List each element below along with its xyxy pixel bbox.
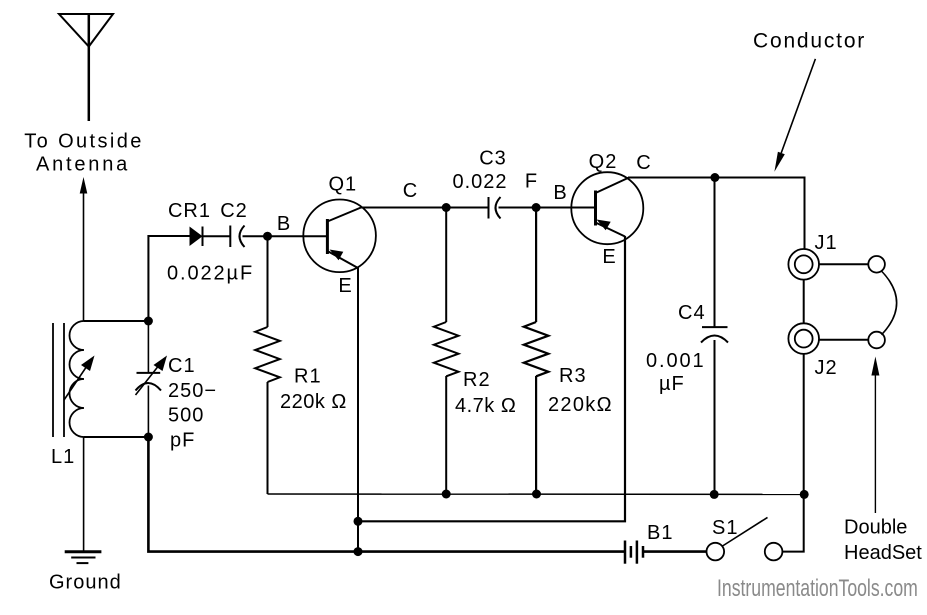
Q1 emitter arrow (330, 250, 344, 261)
node dot R3 bottom (532, 490, 541, 499)
jack J2 (788, 323, 819, 354)
capacitor C2 (230, 226, 267, 248)
svg-text:C4: C4 (678, 302, 706, 324)
svg-text:4.7k Ω: 4.7k Ω (455, 395, 516, 417)
node dot R2 bottom (442, 490, 451, 499)
svg-text:C: C (636, 152, 650, 174)
antenna symbol (59, 14, 113, 122)
node dot C4 bottom (710, 490, 719, 499)
svg-text:0.022µF: 0.022µF (167, 262, 254, 284)
switch S1 (707, 517, 783, 560)
svg-text:220k Ω: 220k Ω (280, 391, 347, 413)
headset cord arc (881, 271, 897, 335)
svg-text:B1: B1 (647, 522, 673, 544)
wire Q1 emitter vertical (357, 267, 359, 552)
svg-text:C2: C2 (220, 200, 248, 222)
svg-text:E: E (602, 246, 615, 268)
capacitor C4 (701, 178, 728, 495)
svg-text:InstrumentationTools.com: InstrumentationTools.com (717, 575, 918, 601)
svg-text:R2: R2 (463, 369, 491, 391)
wire Q2 emitter vertical (358, 236, 625, 521)
svg-text:Q1: Q1 (329, 174, 358, 196)
conductor pointer arrow (774, 59, 815, 172)
svg-text:pF: pF (170, 429, 195, 451)
svg-text:R3: R3 (559, 365, 587, 387)
Q2 emitter arrow (597, 220, 611, 231)
node dot emitter bus3 (354, 547, 363, 556)
resistor R1 (255, 236, 280, 494)
wire rail below J2 (782, 354, 803, 552)
svg-text:E: E (338, 275, 351, 297)
wire Q2 collector top (628, 178, 805, 250)
svg-text:R1: R1 (294, 365, 322, 387)
svg-text:250−: 250− (168, 380, 217, 402)
wire left top corner (148, 236, 189, 321)
node dot R3 top (532, 203, 541, 212)
svg-text:C: C (403, 180, 417, 202)
node dot B (Q1 base) (263, 232, 272, 241)
wire to Q2 base (536, 207, 595, 209)
svg-text:µF: µF (659, 373, 685, 395)
node dot C4 top (710, 173, 719, 182)
svg-text:C1: C1 (168, 355, 196, 377)
wire L1 top tap (84, 320, 148, 322)
svg-text:To Outside: To Outside (24, 131, 144, 153)
resistor R2 (434, 208, 459, 495)
ground (65, 552, 102, 563)
svg-text:B: B (553, 182, 566, 204)
battery B1 (625, 541, 643, 564)
svg-text:500: 500 (168, 405, 204, 427)
svg-text:S1: S1 (712, 517, 738, 539)
headset plug bottom (868, 332, 885, 349)
resistor R3 (524, 208, 549, 495)
transistor Q2 (571, 172, 643, 244)
capacitor C3 (489, 197, 537, 219)
svg-text:0.022: 0.022 (452, 171, 507, 193)
wire bus3 (ground return) (148, 437, 625, 552)
svg-text:J2: J2 (815, 357, 838, 379)
transistor Q1 (303, 200, 376, 273)
L1 variable arrow (64, 356, 95, 401)
svg-text:0.001: 0.001 (646, 350, 706, 372)
node dot R2 top (442, 203, 451, 212)
svg-text:Ground: Ground (49, 571, 122, 593)
node dot emitter bus2 (354, 517, 363, 526)
wire L1 bottom tap (84, 436, 148, 438)
wire J2 to plug (819, 339, 868, 341)
capacitor C1 (variable) branch vertical wire (136, 236, 162, 552)
svg-text:HeadSet: HeadSet (844, 542, 922, 564)
wire Q1 collector to C3 (360, 207, 489, 209)
C1 variable arrow (136, 356, 168, 396)
svg-text:Antenna: Antenna (36, 154, 130, 176)
svg-text:Q2: Q2 (589, 151, 618, 173)
svg-text:B: B (277, 213, 290, 235)
wire to Q1 base (268, 235, 328, 237)
svg-text:CR1: CR1 (168, 200, 211, 222)
arrow Double HeadSet (871, 357, 879, 514)
svg-text:F: F (525, 171, 537, 193)
node dot L1 bottom (144, 433, 153, 442)
wire battery to switch (643, 550, 706, 553)
headset plug top (868, 256, 885, 273)
wire ground lead (83, 437, 85, 552)
wire bus1 (thin) (268, 493, 805, 495)
jack J1 (788, 249, 819, 280)
node dot rail bus1 (800, 490, 809, 499)
svg-text:220kΩ: 220kΩ (548, 394, 613, 416)
svg-text:C3: C3 (479, 148, 507, 170)
diode CR1 (190, 227, 231, 247)
svg-text:L1: L1 (51, 446, 75, 468)
svg-text:J1: J1 (815, 232, 838, 254)
node dot L1 top (144, 317, 153, 326)
wire J1 to plug (819, 263, 868, 265)
svg-text:Conductor: Conductor (753, 29, 866, 52)
inductor L1 (53, 321, 84, 437)
wire rail between jacks (803, 280, 805, 324)
antenna lead arrow (up) (80, 177, 88, 321)
svg-text:Double: Double (844, 517, 907, 539)
